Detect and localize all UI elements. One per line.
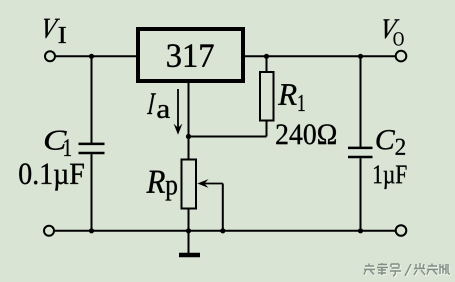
node A junction bbox=[89, 54, 94, 59]
label R1 bbox=[278, 84, 305, 111]
node B junction bbox=[264, 54, 269, 59]
label Ia bbox=[147, 93, 170, 118]
node D junction bbox=[186, 134, 191, 139]
capacitor C1 bbox=[79, 56, 105, 231]
ground bbox=[179, 231, 200, 255]
watermark bbox=[364, 263, 451, 277]
wire VI to node A bbox=[55, 55, 92, 57]
terminal bottom right bbox=[396, 225, 407, 236]
potentiometer Rp bbox=[182, 137, 197, 232]
resistor R1 bbox=[260, 56, 274, 136]
wire R1 bottom to node D bbox=[189, 136, 267, 138]
value label 0.1uF bbox=[19, 163, 84, 190]
wire node B to node C bbox=[267, 55, 361, 57]
label VO bbox=[383, 19, 403, 45]
node C2 bottom junction bbox=[358, 228, 363, 233]
wire node C to terminal VO bbox=[361, 55, 396, 57]
terminal VI input bbox=[45, 51, 55, 61]
terminal VO output bbox=[396, 51, 407, 62]
label VI bbox=[44, 19, 66, 43]
IC U1 317 regulator bbox=[138, 29, 243, 81]
node C1 bottom junction bbox=[89, 228, 94, 233]
label 317 bbox=[167, 44, 213, 67]
value label 240ohm bbox=[276, 124, 336, 144]
node Rp bottom junction bbox=[186, 228, 191, 233]
value label 1uF bbox=[374, 165, 407, 189]
label Rp bbox=[146, 171, 177, 201]
current arrow Ia bbox=[174, 89, 183, 135]
label C1 bbox=[45, 131, 71, 156]
capacitor C2 bbox=[348, 56, 373, 231]
node C junction bbox=[358, 54, 363, 59]
wire 317 output pin to node B bbox=[243, 55, 267, 57]
node wiper bottom junction bbox=[220, 228, 225, 233]
wire wiper to bottom rail bbox=[222, 184, 224, 232]
wire node A to 317 input pin bbox=[92, 55, 139, 57]
wire 317 adjust pin to node D bbox=[188, 81, 190, 137]
bottom rail wire bbox=[54, 230, 396, 232]
terminal bottom left bbox=[44, 226, 54, 236]
label C2 bbox=[377, 130, 406, 155]
wiper arrow of Rp bbox=[197, 179, 223, 188]
